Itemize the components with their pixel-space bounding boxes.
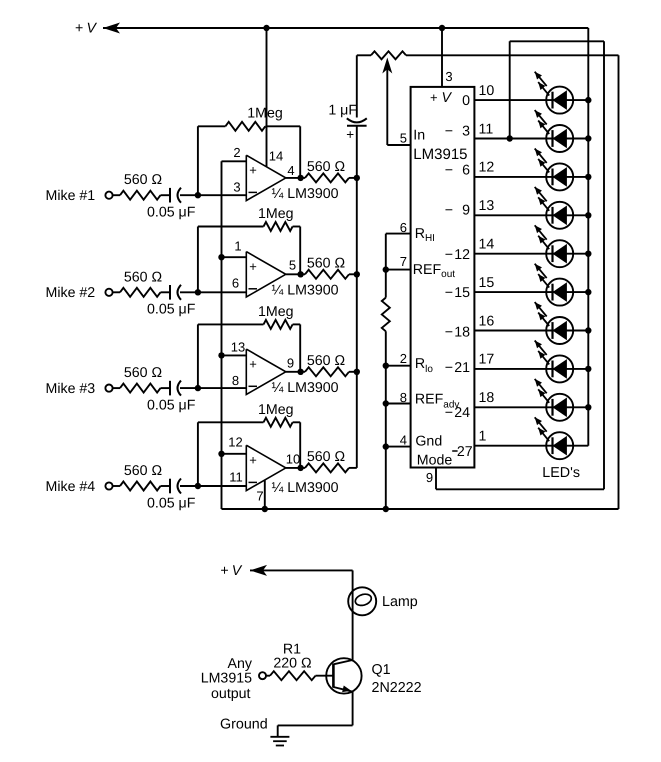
svg-text:+: + bbox=[249, 453, 257, 468]
svg-text:560 Ω: 560 Ω bbox=[124, 172, 162, 188]
svg-text:2: 2 bbox=[400, 351, 407, 366]
svg-text:−: − bbox=[445, 285, 453, 301]
svg-text:¼ LM3900: ¼ LM3900 bbox=[272, 186, 339, 202]
svg-text:¼ LM3900: ¼ LM3900 bbox=[272, 282, 339, 298]
svg-text:Mode: Mode bbox=[417, 453, 453, 469]
svg-text:11: 11 bbox=[229, 470, 243, 485]
svg-text:−: − bbox=[445, 247, 453, 263]
svg-text:Q1: Q1 bbox=[372, 662, 391, 678]
svg-text:−: − bbox=[445, 162, 453, 178]
svg-text:V: V bbox=[87, 21, 98, 37]
svg-text:15: 15 bbox=[454, 285, 470, 301]
svg-text:output: output bbox=[211, 686, 251, 702]
svg-text:LED's: LED's bbox=[542, 465, 580, 481]
svg-text:−: − bbox=[445, 123, 453, 139]
svg-text:14: 14 bbox=[269, 148, 283, 163]
svg-text:560 Ω: 560 Ω bbox=[307, 255, 345, 271]
svg-text:560 Ω: 560 Ω bbox=[307, 159, 345, 175]
svg-text:16: 16 bbox=[479, 313, 495, 329]
svg-text:Lamp: Lamp bbox=[382, 594, 418, 610]
svg-text:Gnd: Gnd bbox=[415, 434, 442, 450]
svg-text:0: 0 bbox=[462, 93, 470, 109]
svg-text:15: 15 bbox=[479, 275, 495, 291]
svg-text:1Meg: 1Meg bbox=[258, 206, 294, 222]
svg-text:21: 21 bbox=[454, 360, 470, 376]
svg-text:12: 12 bbox=[228, 434, 242, 449]
svg-text:0.05 μF: 0.05 μF bbox=[147, 397, 196, 413]
svg-text:5: 5 bbox=[400, 130, 407, 145]
svg-text:3: 3 bbox=[445, 69, 452, 84]
svg-text:¼ LM3900: ¼ LM3900 bbox=[272, 480, 339, 496]
svg-text:2N2222: 2N2222 bbox=[372, 680, 422, 696]
svg-text:−: − bbox=[445, 405, 453, 421]
svg-text:0.05 μF: 0.05 μF bbox=[147, 302, 196, 318]
svg-text:+: + bbox=[220, 563, 228, 579]
svg-text:10: 10 bbox=[479, 83, 495, 99]
svg-text:0.05 μF: 0.05 μF bbox=[147, 495, 196, 511]
svg-text:9: 9 bbox=[426, 470, 433, 485]
svg-text:1Meg: 1Meg bbox=[247, 106, 282, 122]
svg-text:+: + bbox=[249, 259, 257, 274]
svg-text:12: 12 bbox=[479, 160, 495, 176]
svg-text:6: 6 bbox=[400, 220, 407, 235]
svg-text:LM3915: LM3915 bbox=[413, 146, 467, 163]
svg-text:18: 18 bbox=[479, 390, 495, 406]
svg-text:560 Ω: 560 Ω bbox=[124, 269, 162, 285]
svg-text:220 Ω: 220 Ω bbox=[273, 655, 311, 671]
svg-text:Mike #2: Mike #2 bbox=[46, 285, 96, 301]
svg-text:6: 6 bbox=[462, 162, 470, 178]
svg-text:12: 12 bbox=[454, 247, 470, 263]
svg-text:14: 14 bbox=[479, 237, 495, 253]
svg-text:In: In bbox=[413, 128, 425, 144]
svg-text:11: 11 bbox=[479, 121, 494, 137]
svg-text:13: 13 bbox=[231, 339, 245, 354]
svg-text:1: 1 bbox=[479, 429, 487, 445]
svg-text:10: 10 bbox=[286, 451, 300, 466]
svg-text:+: + bbox=[346, 127, 354, 142]
svg-text:Mike #3: Mike #3 bbox=[46, 381, 96, 397]
svg-text:24: 24 bbox=[454, 405, 470, 421]
svg-text:Ground: Ground bbox=[220, 716, 268, 732]
svg-text:7: 7 bbox=[400, 254, 407, 269]
svg-text:560 Ω: 560 Ω bbox=[124, 463, 162, 479]
svg-text:Mike #1: Mike #1 bbox=[46, 188, 96, 204]
svg-text:1Meg: 1Meg bbox=[258, 304, 294, 320]
svg-text:560 Ω: 560 Ω bbox=[307, 353, 345, 369]
svg-text:560 Ω: 560 Ω bbox=[124, 365, 162, 381]
svg-text:5: 5 bbox=[289, 257, 296, 272]
svg-text:3: 3 bbox=[233, 179, 240, 194]
svg-text:+: + bbox=[249, 356, 257, 371]
svg-text:V: V bbox=[442, 90, 453, 106]
svg-text:−: − bbox=[445, 203, 453, 219]
svg-text:1: 1 bbox=[234, 238, 241, 253]
svg-text:+: + bbox=[430, 90, 438, 105]
svg-text:3: 3 bbox=[462, 123, 470, 139]
svg-text:LM3915: LM3915 bbox=[201, 670, 252, 686]
svg-text:17: 17 bbox=[479, 352, 495, 368]
svg-text:560 Ω: 560 Ω bbox=[307, 449, 345, 465]
svg-text:1Meg: 1Meg bbox=[258, 402, 294, 418]
svg-text:8: 8 bbox=[400, 390, 407, 405]
svg-text:18: 18 bbox=[454, 324, 470, 340]
svg-text:−: − bbox=[445, 360, 453, 376]
svg-text:+: + bbox=[249, 163, 257, 178]
svg-text:+: + bbox=[75, 21, 83, 37]
svg-text:0.05 μF: 0.05 μF bbox=[147, 205, 196, 221]
svg-text:¼ LM3900: ¼ LM3900 bbox=[272, 380, 339, 396]
svg-text:V: V bbox=[232, 563, 243, 579]
svg-text:1 μF: 1 μF bbox=[328, 103, 357, 119]
svg-text:6: 6 bbox=[232, 275, 239, 290]
svg-text:4: 4 bbox=[287, 163, 294, 178]
svg-text:9: 9 bbox=[462, 203, 470, 219]
svg-text:7: 7 bbox=[256, 488, 263, 503]
svg-text:−: − bbox=[445, 324, 453, 340]
svg-text:8: 8 bbox=[232, 373, 239, 388]
svg-text:27: 27 bbox=[457, 444, 473, 460]
svg-text:4: 4 bbox=[400, 432, 407, 447]
svg-text:9: 9 bbox=[287, 355, 294, 370]
svg-text:Mike #4: Mike #4 bbox=[46, 479, 96, 495]
svg-text:13: 13 bbox=[479, 198, 495, 214]
svg-text:2: 2 bbox=[233, 145, 240, 160]
